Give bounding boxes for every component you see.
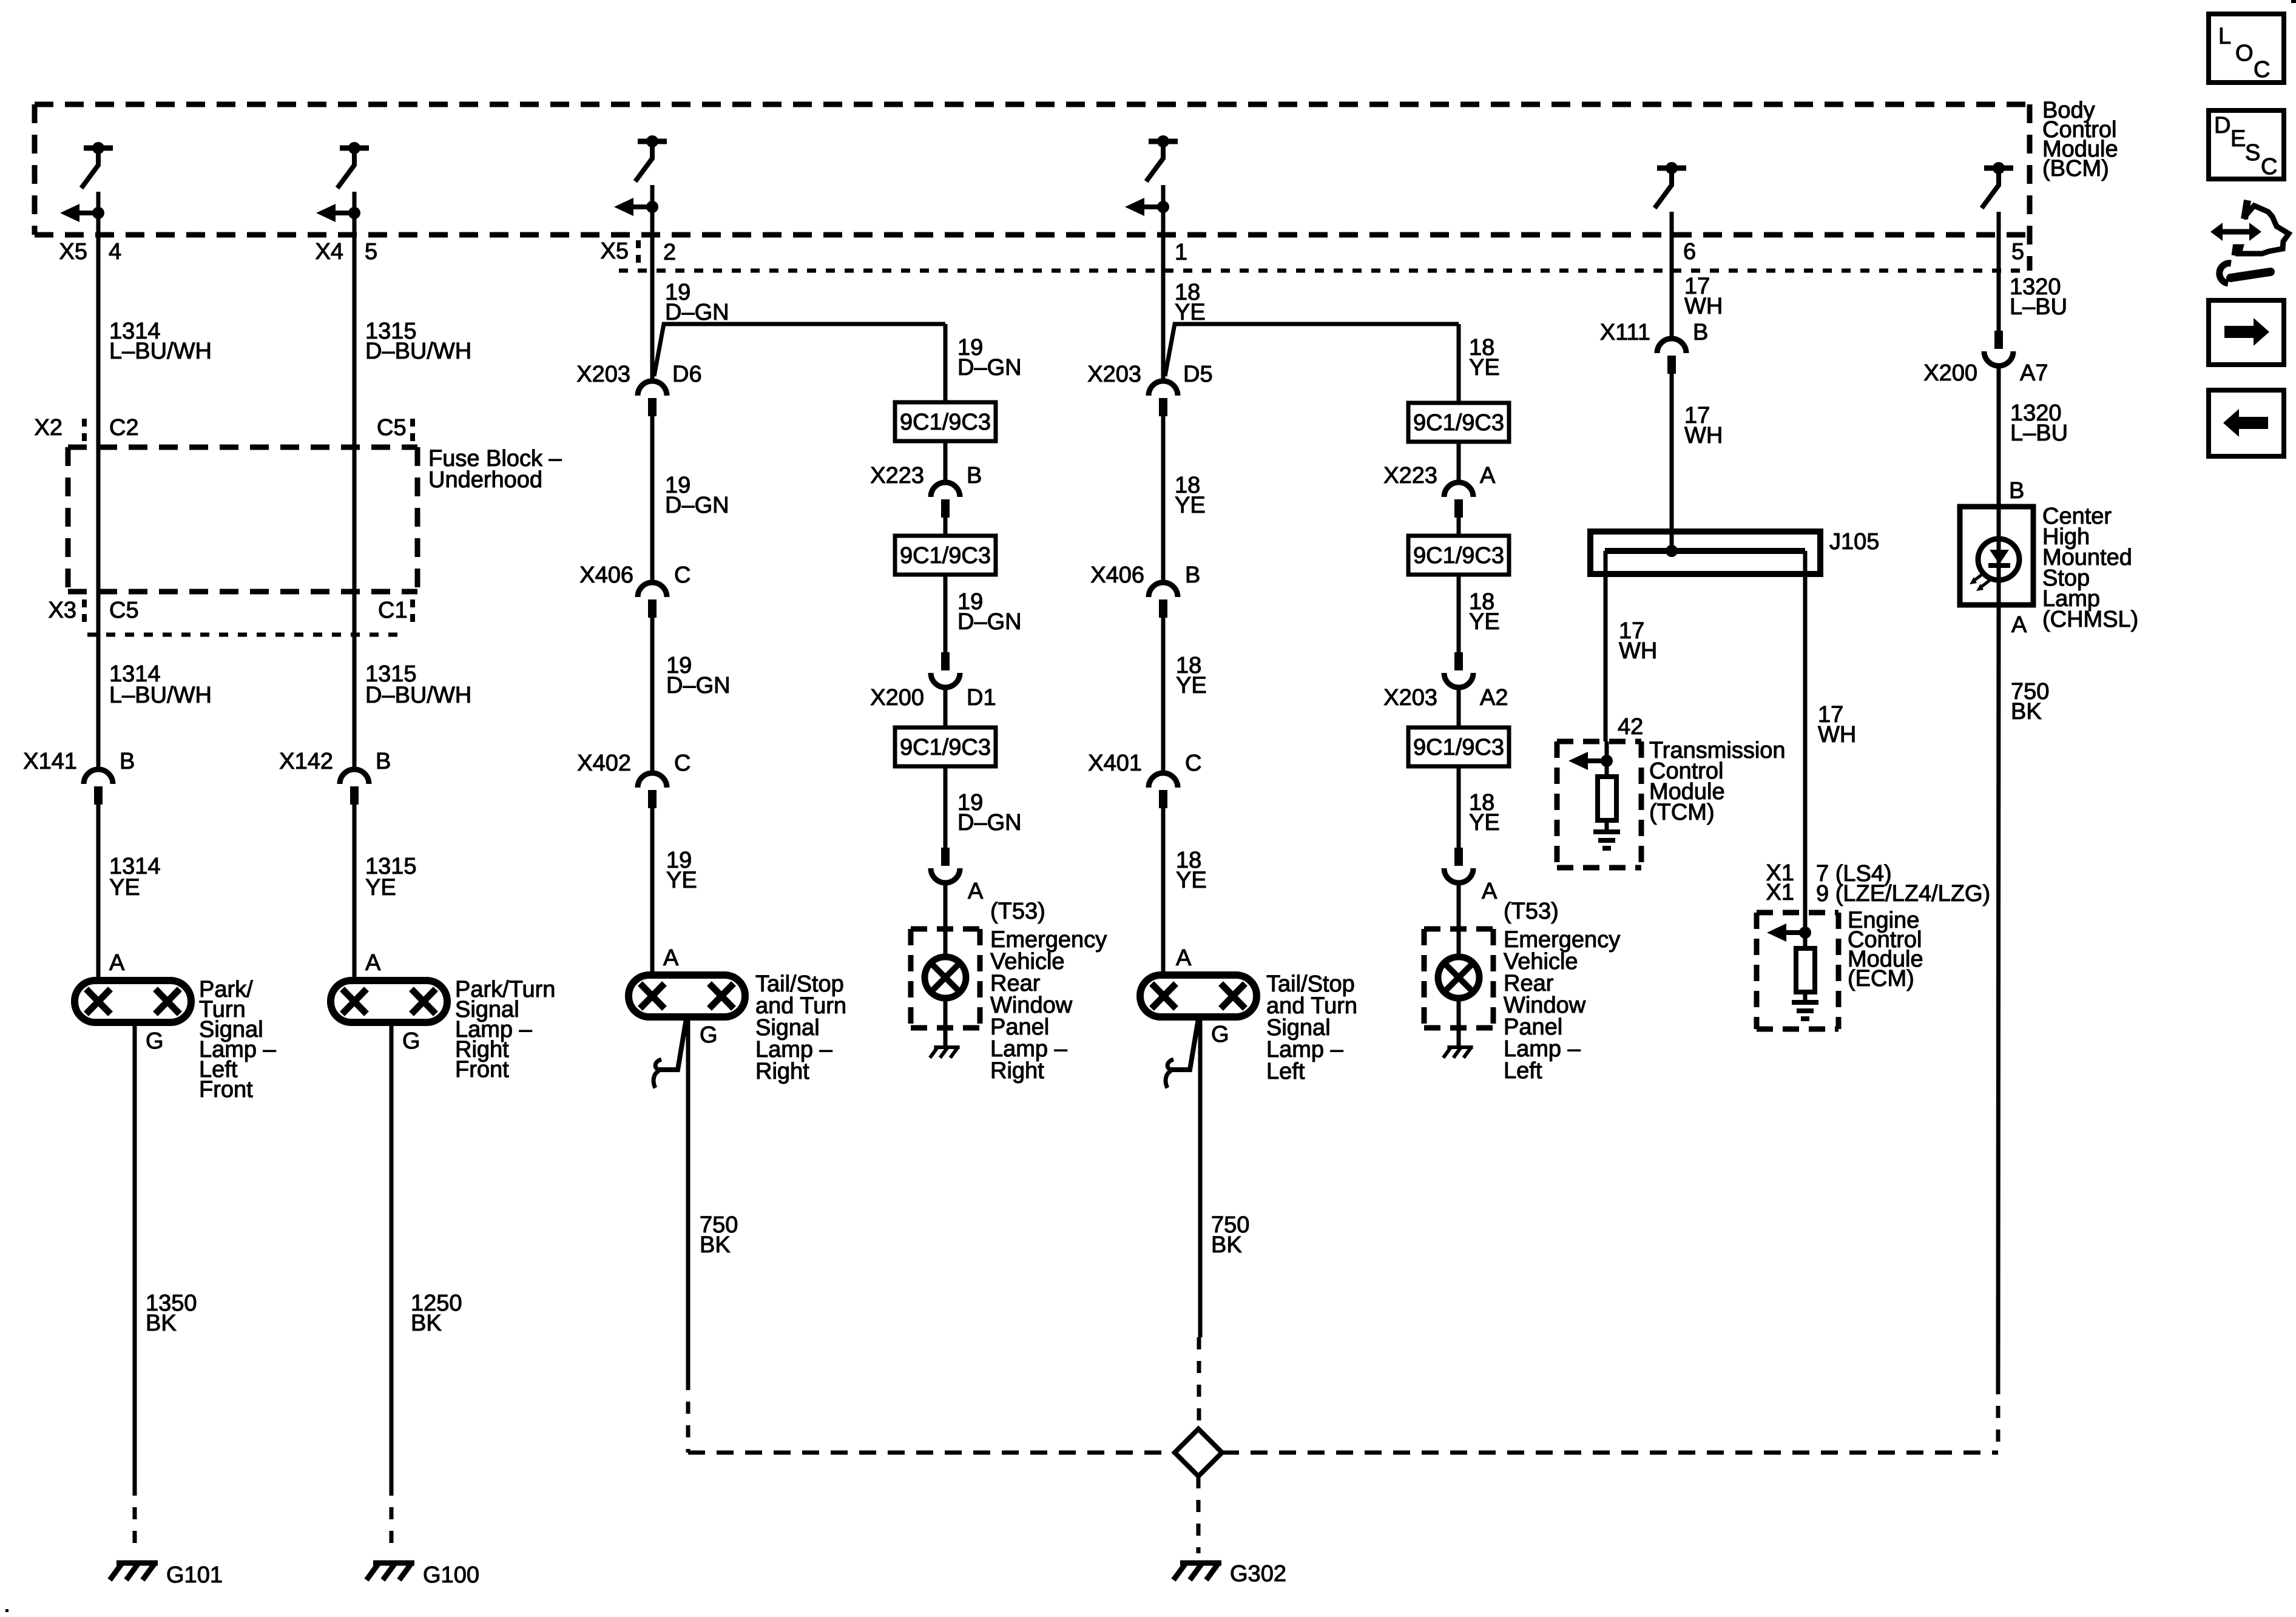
inline box 9C1/9C3 (col4 branch, 2nd) [1408,536,1509,575]
module box: Body Control Module (BCM), dashed outline [35,102,2030,107]
svg-text:X5: X5 [59,239,87,265]
svg-text:B: B [376,749,391,774]
svg-text:D: D [2214,113,2230,138]
wire branch col3 box3 down [944,766,948,848]
svg-text:9C1/9C3: 9C1/9C3 [900,543,991,569]
inline box 9C1/9C3 (col4 branch, 1st) [1408,403,1509,442]
connector X111 [1657,339,1686,353]
wire branch col3 X223 to box2 [944,518,948,536]
svg-text:A: A [968,879,984,904]
icon diagnostic outline [2244,200,2247,219]
pigtail hook col4 [1171,1019,1198,1070]
svg-text:X141: X141 [23,749,77,774]
svg-text:A: A [1480,463,1496,488]
svg-text:G: G [1211,1022,1229,1047]
wire col2 BCM to fuse block [353,235,357,447]
svg-text:D–GN: D–GN [666,673,731,698]
svg-text:D–GN: D–GN [665,493,729,518]
svg-text:X402: X402 [577,751,631,776]
ground G101 [116,1561,158,1566]
ground (emergency right) [934,1045,959,1049]
wire TCM resistor to ground [1605,820,1609,832]
svg-text:A7: A7 [2020,360,2048,386]
svg-text:YE: YE [1469,810,1500,836]
wire branch col3 to right leg [654,324,945,376]
wire col1 X141 to lamp [96,805,101,981]
svg-text:D1: D1 [967,685,996,711]
connector X141 [84,769,113,784]
svg-text:5: 5 [2011,239,2024,265]
svg-text:(CHMSL): (CHMSL) [2042,607,2138,632]
svg-text:L–BU: L–BU [2010,420,2068,446]
switch S5 (BCM brake output) [1657,166,1686,171]
ground (emergency left) [1447,1045,1473,1049]
wire col1 dashed to G101 [133,1484,137,1553]
svg-text:C2: C2 [109,415,139,441]
icon arrow-left [2239,417,2268,429]
wire col4 branch to X203 [1161,340,1166,380]
wire col4 inside BCM [1161,185,1166,235]
pin bar col3 [636,240,641,268]
wire col2 dashed to G100 [390,1484,394,1553]
connector X406 (col3) [638,582,667,597]
svg-text:G302: G302 [1230,1561,1286,1587]
wire col2 lamp to ground (solid) [390,1024,394,1484]
svg-text:G100: G100 [423,1562,479,1588]
page dot bottom-left [5,1609,8,1612]
svg-text:Left: Left [1504,1058,1542,1084]
svg-text:C: C [2254,57,2270,83]
arrow/junction col4 [1143,204,1163,209]
svg-text:C: C [674,751,690,776]
svg-text:C: C [1185,751,1201,776]
wire J105 to ECM [1803,551,1808,913]
svg-text:D–BU/WH: D–BU/WH [365,339,471,364]
connector X142 [340,769,369,784]
svg-text:YE: YE [365,875,396,900]
svg-text:L–BU/WH: L–BU/WH [109,339,212,364]
svg-text:X111: X111 [1600,320,1650,345]
svg-text:G: G [146,1028,164,1054]
icon box arrow-left [2209,390,2284,456]
wire col3 BCM to branch [650,235,655,340]
connector X401 [1149,773,1178,788]
svg-text:B: B [967,463,982,488]
arrow/junction col2 [334,211,354,215]
svg-text:L–BU: L–BU [2010,294,2067,320]
ground G302 [1180,1561,1221,1566]
svg-text:5: 5 [365,239,377,265]
arrow/junction col3 [632,204,652,209]
wire emergency left to ground [1457,998,1461,1047]
svg-text:(ECM): (ECM) [1848,966,1914,991]
svg-text:L: L [2218,24,2231,49]
wire branch col4 box1 to X223 [1457,442,1461,481]
svg-text:YE: YE [1176,868,1207,893]
svg-text:G: G [700,1022,718,1048]
wire col5 X111 to J105 [1670,374,1674,551]
arrow/junction inside ECM [1785,930,1805,935]
wire CHMSL to bus (solid) [1998,605,1999,1382]
lamp: Tail/Stop and Turn Signal Lamp - Right [629,975,745,1017]
wire col1 through fuse block [96,447,101,592]
svg-text:A: A [663,945,679,971]
svg-text:S: S [2245,140,2260,166]
LED symbol (CHMSL) [1978,539,2019,580]
icon box LOC [2209,14,2284,83]
lamp: Park/Turn Signal Lamp - Right Front [331,981,447,1022]
pin bar C1 right [410,599,415,624]
svg-text:YE: YE [1175,300,1206,325]
svg-text:G: G [402,1028,420,1054]
splice pack J105 bus bar [1605,548,1805,554]
wire diamond to G302 (dashed) [1197,1476,1201,1553]
pigtail hook col3 [659,1019,686,1070]
connector X203 (col4) [1149,381,1178,396]
wire col2 X142 to lamp [353,805,357,981]
wire through CHMSL [1997,507,2001,605]
wire col3 X402 to lamp [650,808,655,975]
wire CHMSL dashed corner to bus [1996,1382,2001,1453]
wire branch col4 X203 to box3 [1457,689,1461,727]
connector X402 [638,773,667,788]
svg-text:A2: A2 [1480,685,1508,711]
svg-text:B: B [1693,320,1708,345]
wire col6 X200 to CHMSL [1997,367,2001,507]
icon box arrow-right [2209,300,2284,365]
wire col4 X406 to X401 [1161,618,1166,772]
svg-text:X406: X406 [1090,562,1144,588]
wire branch col3 X200 to box3 [944,689,948,727]
wire col3 branch to X203 [650,340,655,380]
svg-text:B: B [120,749,135,774]
svg-text:BK: BK [146,1311,177,1336]
wire col4 dashed to diamond [1197,1337,1201,1429]
connector X200 A7 [1994,331,2003,349]
connector X406 (col4) [1149,582,1178,597]
module box: Emergency Vehicle Rear Window Panel Lamp - Right (dashed) [911,927,980,932]
svg-text:4: 4 [109,239,121,265]
arrow/junction col1 (feedback into BCM) [78,211,98,215]
wire col1 BCM to fuse block [96,235,101,447]
connector X203 A2 [1454,652,1463,670]
svg-text:C1: C1 [378,598,408,623]
svg-text:Right: Right [990,1058,1044,1084]
wire col1 fuse block to X141 [96,592,101,768]
svg-text:YE: YE [1469,609,1500,635]
svg-text:L–BU/WH: L–BU/WH [109,683,212,708]
svg-text:9C1/9C3: 9C1/9C3 [1413,410,1504,436]
svg-text:YE: YE [1175,493,1206,518]
svg-text:(TCM): (TCM) [1649,800,1715,825]
wire J105 to TCM [1604,551,1608,741]
svg-text:X4: X4 [316,239,343,265]
svg-text:X142: X142 [279,749,333,774]
wire col1 lamp to ground (solid) [133,1024,137,1484]
pin bar X2 [82,419,87,443]
arrow/junction inside TCM [1587,758,1607,763]
connector to Emergency lamp Left [1454,848,1463,866]
switch S1 (BCM output driver, left turn front) [84,146,113,151]
svg-text:42: 42 [1618,714,1643,740]
icon diagnostic arrow (double-headed) [2221,229,2251,235]
svg-text:2: 2 [663,240,676,265]
svg-text:A: A [1176,945,1192,971]
svg-text:B: B [1185,562,1200,588]
ground inside ECM [1792,1000,1818,1005]
svg-text:X200: X200 [870,685,924,711]
svg-text:YE: YE [1176,673,1207,698]
wire branch col3 box1 to X223 [944,441,948,481]
svg-text:Front: Front [455,1057,509,1082]
resistor inside TCM [1598,777,1616,820]
svg-text:D–GN: D–GN [665,300,729,325]
inline box 9C1/9C3 (col3 branch, 1st) [895,402,996,441]
svg-text:X203: X203 [1383,685,1437,711]
module box: Fuse Block - Underhood, dashed outline [68,445,417,450]
svg-text:Right: Right [755,1059,809,1084]
svg-text:YE: YE [666,868,697,893]
connector X203 (col3) [638,381,667,396]
module box: Transmission Control Module (TCM), dashed [1557,739,1641,744]
svg-text:A: A [2011,612,2027,638]
resistor inside ECM [1796,948,1815,992]
module box: Emergency Vehicle Rear Window Panel Lamp - Left (dashed) [1424,927,1493,932]
svg-text:9C1/9C3: 9C1/9C3 [900,410,991,435]
svg-text:BK: BK [700,1232,731,1258]
svg-text:9 (LZE/LZ4/LZG): 9 (LZE/LZ4/LZG) [1816,881,1990,906]
svg-text:X223: X223 [870,463,924,488]
wire col1 inside BCM [96,192,101,235]
connector to Emergency lamp Right [941,848,950,866]
wire col4 BCM to branch [1161,235,1166,340]
svg-text:X406: X406 [579,562,633,588]
wire inside TCM [1605,741,1609,777]
inline box 9C1/9C3 (col3 branch, 2nd) [895,536,996,575]
pin bar C5 right [410,419,415,443]
connector X200 D1 [941,652,950,670]
junction dot on J105 bus [1666,545,1678,557]
wire col6 inside BCM [1997,212,2001,235]
icon wrench [2220,263,2231,283]
wire branch col3 leg down [944,324,948,402]
svg-text:A: A [365,950,381,976]
svg-text:D6: D6 [672,362,702,387]
svg-text:D–GN: D–GN [957,609,1022,635]
svg-text:BK: BK [1211,1232,1242,1258]
wire col2 through fuse block [353,447,357,592]
svg-text:C5: C5 [377,415,407,441]
svg-text:X1: X1 [1766,880,1794,905]
svg-text:Front: Front [199,1077,253,1102]
wire branch col3 box2 to X200 [944,575,948,652]
svg-text:D–BU/WH: D–BU/WH [365,683,471,708]
wire col2 inside BCM [353,192,357,235]
svg-text:X5: X5 [601,238,629,264]
wire col4 X401 to lamp [1161,808,1166,975]
switch S2 (BCM output driver, right turn front) [340,146,369,151]
svg-text:1: 1 [1175,240,1187,265]
svg-text:(BCM): (BCM) [2042,156,2109,181]
svg-text:D–GN: D–GN [957,810,1022,836]
svg-text:WH: WH [1619,638,1657,664]
wire col3 dashed corner to bus [686,1378,690,1453]
wire ground bus dashed (left of splice) [688,1451,1175,1455]
svg-text:X203: X203 [576,362,630,387]
wire col3 X406 to X402 [650,618,655,772]
svg-text:6: 6 [1683,239,1696,265]
svg-text:9C1/9C3: 9C1/9C3 [900,735,991,760]
svg-text:(T53): (T53) [1504,899,1559,924]
svg-text:X2: X2 [35,415,62,441]
svg-text:A: A [1482,879,1497,904]
svg-text:Underhood: Underhood [428,467,542,493]
svg-text:WH: WH [1818,722,1856,748]
BCM connector face dotted line [619,269,2030,273]
wire ground bus dashed (right of splice) [1222,1451,1998,1455]
splice pack J105 outer box [1590,532,1820,574]
svg-text:X401: X401 [1088,751,1142,776]
svg-text:Left: Left [1266,1059,1305,1084]
wire col2 fuse block to X142 [353,592,357,768]
wire col5 inside BCM [1670,212,1674,235]
wire into emergency lamp left [1457,884,1461,957]
svg-text:WH: WH [1684,294,1723,319]
wire inside ECM [1803,913,1808,948]
inline box 9C1/9C3 (col4 branch, 3rd) [1408,727,1509,766]
wire col3 lamp to bus (solid) [686,1017,690,1378]
switch S4 (BCM output driver) [1149,139,1178,144]
svg-text:YE: YE [109,875,140,900]
svg-text:G101: G101 [166,1562,223,1588]
svg-text:E: E [2230,126,2246,152]
svg-text:X200: X200 [1923,360,1977,386]
switch S3 (BCM output driver) [638,139,667,144]
icon box DESC [2209,110,2284,179]
wire col6 BCM to X200 [1997,235,2001,331]
svg-text:X203: X203 [1087,362,1141,387]
svg-text:D–GN: D–GN [957,355,1022,380]
svg-text:A: A [109,950,125,976]
svg-text:X223: X223 [1383,463,1437,488]
switch S6 (BCM CHMSL output) [1984,166,2013,171]
connector X223 (col3 branch) [931,482,960,497]
lamp: Emergency Vehicle Rear Window Panel Lamp - Right [925,957,966,998]
module box: CHMSL housing [1960,507,2033,605]
fuse block bottom dotted line [87,633,402,637]
svg-text:BK: BK [2011,699,2042,724]
pin bar X3 [82,599,87,624]
svg-text:WH: WH [1684,423,1723,448]
splice symbol (diamond) on ground bus [1175,1429,1222,1476]
ground inside TCM [1593,829,1620,834]
svg-text:J105: J105 [1829,529,1879,555]
wire col3 inside BCM [650,185,655,235]
corner scan mark [2291,0,2296,3]
connector X223 (col4 branch) [1444,482,1473,497]
icon arrow-right [2224,326,2254,338]
svg-text:BK: BK [411,1311,442,1336]
wire emergency right to ground [944,998,948,1047]
wire col5 BCM to X111 [1670,235,1674,337]
wire col3 X203 to X406 [650,416,655,581]
svg-text:9C1/9C3: 9C1/9C3 [1413,543,1504,569]
wire branch col4 X223 to box2 [1457,518,1461,536]
wire col4 X203 to X406 [1161,416,1166,581]
svg-text:(T53): (T53) [990,899,1045,924]
svg-text:C5: C5 [109,598,139,623]
wire into emergency lamp right [944,884,948,957]
ground G100 [373,1561,414,1566]
svg-text:O: O [2235,41,2254,66]
svg-text:YE: YE [1469,355,1500,380]
svg-text:C: C [2261,154,2277,180]
wire branch col4 to right leg [1165,324,1459,376]
wire ECM resistor to ground [1803,992,1808,1002]
inline box 9C1/9C3 (col3 branch, 3rd) [895,727,996,766]
svg-text:C: C [674,562,690,588]
module box: Engine Control Module (ECM), dashed [1757,910,1838,916]
wire branch col4 leg down [1457,324,1461,403]
lamp: Tail/Stop and Turn Signal Lamp - Left [1140,975,1257,1017]
lamp: Emergency Vehicle Rear Window Panel Lamp - Left [1438,957,1479,998]
lamp: Park/Turn Signal Lamp - Left Front [75,981,191,1022]
svg-text:9C1/9C3: 9C1/9C3 [1413,735,1504,760]
wire branch col4 box3 down [1457,766,1461,848]
wire col4 lamp to diamond (solid) [1198,1017,1203,1337]
wire branch col4 box2 to X203 [1457,575,1461,652]
svg-text:B: B [2009,478,2024,504]
svg-text:X3: X3 [49,598,76,623]
svg-text:D5: D5 [1183,362,1213,387]
